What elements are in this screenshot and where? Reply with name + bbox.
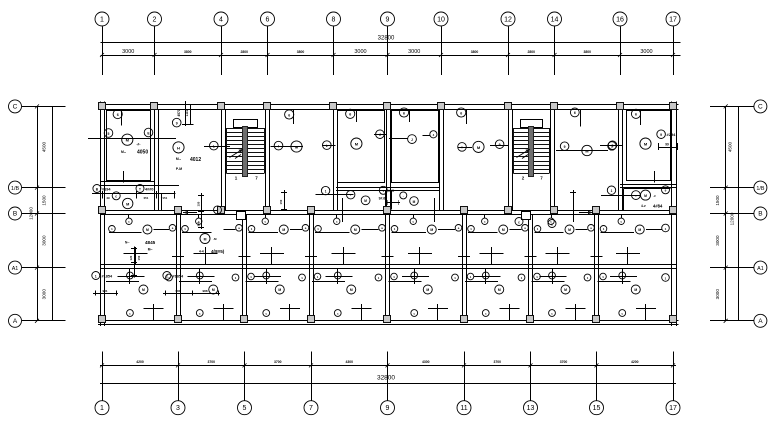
tag circle mid room 7 wall [548,218,554,224]
svg-text:M: M [142,288,145,292]
svg-text:11: 11 [460,405,467,412]
svg-text:8: 8 [332,16,336,23]
svg-text:6: 6 [403,111,405,115]
tag circle WC east 1 [400,192,407,199]
tag circle WC 1 [321,186,329,194]
svg-text:051: 051 [144,196,149,200]
tag circle bottom room2 grid [163,272,171,280]
svg-text:981: 981 [102,289,107,293]
leader stair west right [271,146,304,148]
symbol circle corridor left [123,198,133,208]
tag circle room4r right2 [430,131,437,138]
tag circle mid room 8 wall [618,218,624,224]
tag circle room3 left [274,141,283,150]
door swing bottom room 6 [473,276,500,278]
tag circle WC 4 [379,186,387,194]
svg-text:1500: 1500 [42,195,47,206]
wall partition grid14 stair east [550,110,552,211]
svg-text:9#.6#: 9#.6# [379,197,388,201]
tick slash right B [724,212,728,216]
svg-text:C: C [13,104,18,111]
axis bubble 1 bottom [95,401,109,415]
axis bubble A left [9,314,22,327]
vert dim corridor x201 [201,193,203,229]
svg-text:7: 7 [309,405,313,412]
svg-text:5: 5 [243,405,247,412]
axis bubble 17 bottom [666,401,680,415]
svg-text:14: 14 [551,16,559,23]
leader line mid room 1 a [109,232,142,234]
column B-102 [99,207,106,214]
svg-text:4(8#5): 4(8#5) [211,249,225,254]
grid line 12 extension top [508,27,510,76]
tick slash bottom 3 [176,363,180,367]
wall partition grid16 [618,110,620,211]
tick slash bottom 7 [309,363,313,367]
door stub bottom room 5 north [414,268,416,284]
finish line room16-17 inner [627,111,671,181]
tag circle WC east 2 [410,197,419,206]
wall partition grid8 [333,110,335,211]
svg-text:A1: A1 [12,266,19,272]
svg-text:J: J [411,138,413,142]
tag circle mid room 6 right [522,225,529,232]
tag circle mid room 1 right [169,225,176,232]
leader line mid room 2 b [223,229,235,231]
column C-16 [617,103,624,110]
svg-text:4500: 4500 [728,141,733,152]
column B-673 [670,207,677,214]
tag circle bottom room 4 wall [334,310,341,317]
door swing mid room 4 [331,253,355,255]
door tick divider x311 [305,256,317,258]
column C-14 [551,103,558,110]
tick slash left A1 [35,266,39,270]
door swing bottom room 2 [187,276,214,278]
svg-text:J: J [379,133,381,137]
leader line bottom room 5 [389,281,422,283]
svg-text:7151: 7151 [161,196,168,200]
svg-text:981: 981 [175,289,180,293]
window stub bottom room 4 [361,304,363,321]
symbol circle bottom room 8 [631,285,640,294]
leader line room1 [88,138,176,140]
svg-text:I: I [278,144,279,148]
dim line corridor left a [92,193,175,195]
tag circle stair west [210,141,219,150]
leader line bottom room 7 [532,281,565,283]
door swing bottom room 4 [325,276,352,278]
door stub room1 bottom [123,171,125,183]
tag circle bottom room 3 [248,273,255,280]
grid line 13 extension bottom [530,352,532,402]
staircase east U2 [521,120,543,128]
svg-text:M: M [502,228,505,232]
door tick divider x596 [591,256,603,258]
top dimension line lower [101,55,681,57]
door stub mid room 1 [128,215,130,218]
axis bubble B right [754,207,767,220]
leader line mid room 4 b [361,229,378,231]
column C-2 [151,103,158,110]
axis bubble 13 bottom [524,401,538,415]
svg-text:M: M [350,288,353,292]
svg-text:150: 150 [197,201,201,206]
axis bubble 6 top [261,12,275,26]
svg-text:M: M [426,288,429,292]
tag circle mid room 8 left [600,226,607,233]
axis stub left A [22,320,66,322]
wall partition divider x387 [385,215,387,321]
tag circle room4 right [376,130,385,139]
tag circle bottom room 6 wall [482,310,489,317]
svg-text:3000: 3000 [122,49,134,55]
tick slash top 8 [332,53,336,57]
svg-text:99: 99 [665,143,669,147]
door swing bottom room 8 [610,276,637,278]
svg-text:c: c [217,209,219,213]
svg-text:9: 9 [386,405,390,412]
grid line 4 extension top [221,27,223,76]
tag circle room1 left [104,129,113,138]
wall left outer face [100,102,102,327]
svg-text:10: 10 [437,16,445,23]
svg-text:M--: M-- [176,157,181,161]
axis stub right A [710,320,754,322]
tag circle bottom room 5 wall [411,310,418,317]
window stub room3r top [466,110,468,125]
svg-text:M: M [568,228,571,232]
svg-text:4500: 4500 [42,141,47,152]
window stub room1 top [121,110,123,126]
svg-text:3000: 3000 [354,49,366,55]
symbol circle mid room 7 [565,225,574,234]
axis stub right B [710,213,754,215]
leader line mid room 4 a [315,232,349,234]
tag circle mid room 2 wall [196,218,202,224]
window tag circle room4 [346,109,355,118]
tag circle WC 3 [361,196,370,205]
svg-text:9: 9 [660,133,662,137]
door stub mid room 2 south [205,247,207,265]
tick slash right 1/B [724,186,728,190]
door stub mid room 3 south [271,247,273,265]
window stub bottom room 3 [289,304,291,321]
axis bubble 1/B right [754,181,767,194]
wall 1/B segment center [336,187,440,189]
wall partition divider x530 [528,215,530,321]
tag circle bottom room 6 right [518,274,525,281]
svg-text:#294: #294 [667,132,677,137]
leader line mid room 5 b [438,229,455,231]
door stub bottom room 2 north [199,268,201,284]
svg-text:1: 1 [611,189,613,193]
svg-text:4##0: 4##0 [145,188,153,192]
axis stub right C [710,106,754,108]
dim bracket room1r [658,147,677,149]
dim bottom room1 [93,293,118,295]
svg-text:M: M [278,288,281,292]
svg-text:4300: 4300 [422,360,430,364]
tag circle bottom room 5 [391,273,398,280]
svg-text:17: 17 [669,405,677,412]
svg-text:A: A [13,318,18,325]
svg-text:M: M [364,199,367,203]
wall WC east side [391,190,393,210]
window tag circle room1 [113,110,122,119]
svg-text:A: A [758,318,763,325]
grid line 7 extension bottom [311,352,313,402]
symbol circle room3r [473,141,484,152]
axis bubble A1 right [754,261,767,274]
finish line room1 inner [107,111,151,181]
svg-text:12000: 12000 [29,207,34,220]
column B-464 [461,207,468,214]
svg-text:4970: 4970 [177,109,181,116]
axis bubble 5 bottom [238,401,252,415]
tick slash top 9 [386,53,390,57]
corridor arrow west [183,212,197,214]
tag circle bottom room 6 mid [482,272,489,279]
door stub mid room 6 [484,215,486,218]
column A-3 [175,316,182,323]
tag circle mid room 6 left [468,226,475,233]
column C-10 [438,103,445,110]
axis bubble A1 left [9,261,22,274]
window sill bottom room 8 [636,308,656,310]
tag circle bottom room 4 right [375,274,382,281]
grid line 11 extension bottom [464,352,466,402]
leader line mid room 2 a [182,232,211,234]
axis bubble 1/B left [9,181,22,194]
axis stub left 1/B [22,187,66,189]
column A-11 [461,316,468,323]
symbol circle mid room 6 [499,225,508,234]
tag circle room1r win [657,130,666,139]
left dimension line outer [37,106,39,320]
tag circle bottom room 4 mid [334,272,341,279]
tag circle room2 chain [172,118,181,127]
leader line mid room 6 a [468,232,497,234]
svg-text:5: 5 [108,132,110,136]
column B-311 [308,207,315,214]
tick slash bottom 13 [529,363,533,367]
wall WC stub right [434,198,436,222]
column B-178 [175,207,182,214]
svg-text:1: 1 [95,274,97,278]
svg-text:2800: 2800 [527,50,535,54]
axis bubble 11 bottom [457,401,471,415]
dim ticks WC [385,202,400,204]
wall right inner face [671,102,673,327]
leader stair west left [204,146,230,148]
grid line 16 extension top [620,27,622,76]
symbol circle room1 [122,134,133,145]
leader line mid room 1 b [153,229,169,231]
staircase west U1 [234,120,258,128]
tag circle room1r left [608,141,617,150]
door stub mid room 8 [621,215,623,218]
wall partition grid4 stair west [221,110,223,211]
door stub mid room 8 south [627,247,629,265]
tag circle mid room 5 right [455,225,462,232]
tag circle bottom room 1 wall [127,310,134,317]
leader line mid room 3 b [290,229,302,231]
door swing mid room 6 [479,253,503,255]
door stub mid room 4 south [343,247,345,265]
svg-text:c: c [115,195,117,199]
svg-text:3700: 3700 [274,360,282,364]
svg-text:4#84: 4#84 [653,203,663,208]
door stub bottom room 6 north [485,268,487,284]
door tick divider x530 [525,256,537,258]
wall 1/B segment left [101,181,156,183]
vert dim corridor x284 [284,190,286,211]
grid line 17 extension top [673,27,675,76]
axis bubble 4 top [214,12,228,26]
svg-text:13: 13 [527,405,535,412]
leader line bottom room 8 [598,281,631,283]
svg-text:L: L [213,144,215,148]
leader stair east left [490,145,508,147]
window stub bottom room 2 [223,304,225,321]
tag circle bottom room 7 right [584,274,591,281]
symbol circle bottom room 2 [209,285,218,294]
tick slash top 6 [266,53,270,57]
door frame stair east [522,212,531,220]
svg-text:5: 5 [612,144,614,148]
axis bubble 17 top [666,12,680,26]
wall right outer face [676,102,678,327]
svg-text:1/B: 1/B [11,186,19,192]
svg-text:6: 6 [574,111,576,115]
column C-8 [330,103,337,110]
axis bubble 3 bottom [171,401,185,415]
door jamb corridor grid2 [158,193,160,211]
vert dim mid room1 [134,247,136,278]
wall A1 upper face [101,264,677,266]
svg-text:3000: 3000 [42,289,47,300]
svg-text:1: 1 [100,405,104,412]
leader line mid room 5 a [392,232,426,234]
column A-17 [670,316,677,323]
svg-text:P-M: P-M [176,167,182,171]
axis stub left C [22,106,66,108]
leader line mid room 6 b [509,229,521,231]
symbol circle mid room 2 [200,234,210,244]
wall A1 lower face [101,268,677,270]
grid line 10 extension top [441,27,443,76]
tag circle bottom room 6 [467,273,474,280]
bottom dimension line lower [100,383,676,385]
right dimension line inner [725,106,727,320]
symbol circle bottom room 1 [139,285,148,294]
leader line bottom room 4 [312,281,345,283]
svg-text:1/B: 1/B [756,186,764,192]
svg-text:T: T [139,187,141,191]
tag circle bottom room 7 [534,273,541,280]
tag circle subroom 1 [632,191,641,200]
svg-text:M: M [585,149,588,153]
window stub bottom room 1 [153,304,155,321]
window sill bottom room 3 [280,308,300,310]
svg-text:6: 6 [117,113,119,117]
symbol circle bottom room 6 [495,285,504,294]
svg-text:3000: 3000 [715,235,720,246]
tag circle bottom room 2 right [232,274,239,281]
svg-text:4200: 4200 [631,360,639,364]
bottom dimension line upper [100,365,676,367]
symbol circle room2 [173,142,184,153]
tick slash top 1 [100,53,104,57]
leader line bottom room 3 [246,281,279,283]
svg-text:32800: 32800 [377,375,395,382]
grid line 9 extension top [387,27,389,76]
leader line bottom room 6 [465,281,498,283]
svg-text:4-4: 4-4 [199,249,204,253]
tag circle bottom room 8 wall [619,310,626,317]
svg-text:-#-: -#- [137,143,141,147]
leader line mid room 3 a [249,232,278,234]
axis stub left B [22,213,66,215]
door stub mid room 6 south [491,247,493,265]
window sill bottom room 6 [499,308,519,310]
symbol circle mid room 8 [635,225,644,234]
tick slash right C [724,104,728,108]
tag circle bottom room 5 right [452,274,459,281]
symbol circle bottom room 5 [423,285,432,294]
symbol circle room3 [291,141,302,152]
tag circle right-end leader [607,186,615,194]
svg-text:4-v: 4-v [641,204,646,208]
window sill bottom room 7 [566,308,586,310]
tick slash bottom 5 [243,363,247,367]
svg-text:3800: 3800 [471,50,479,54]
svg-text:15: 15 [593,405,601,412]
axis stub left A1 [22,267,66,269]
tag circle mid room 4 wall [334,218,340,224]
tag circle bottom room 1 mid [127,272,134,279]
tag circle bottom room 5 mid [411,272,418,279]
leader room3 right [322,145,336,147]
grid line 14 extension top [554,27,556,76]
tag circle room2r right [608,142,616,150]
svg-text:-: - [635,194,636,198]
column A-7 [308,316,315,323]
column B-221 [218,207,225,214]
svg-text:M: M [644,194,647,198]
svg-text:1: 1 [100,16,104,23]
svg-text:1500: 1500 [715,195,720,206]
leader room1r left [600,145,622,147]
leader line bottom room 2 [179,281,212,283]
dim bottom room2 [163,293,220,295]
tag circle mid room 1 left [109,226,116,233]
svg-text:2: 2 [166,274,168,278]
tick slash left 1/B [35,186,39,190]
grid line 1 extension bottom [102,352,104,402]
svg-text:4845: 4845 [145,240,156,245]
wall top outer face [98,104,679,106]
tag circle subroom 2 [641,190,651,200]
window stub bottom room 8 [645,304,647,321]
axis stub right A1 [710,267,754,269]
svg-text:N--: N-- [125,241,129,245]
column C-9 [384,103,391,110]
window tag circle room4r [399,108,408,117]
door stub mid room 5 [413,215,415,218]
door stub mid room 5 south [419,247,421,265]
